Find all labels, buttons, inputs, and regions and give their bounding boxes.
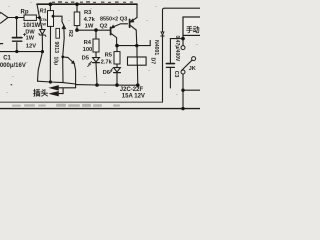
wire ground bus y51 xyxy=(0,51,43,53)
transistor Q2 emitter arrowhead xyxy=(112,26,115,28)
relay coil wire through xyxy=(136,57,138,65)
wire R2 wiper feed xyxy=(53,16,64,25)
relay coil J box xyxy=(128,57,147,65)
svg-text:J2C-22F: J2C-22F xyxy=(120,87,144,93)
node Ro-branch xyxy=(38,16,41,19)
wire bottom-left bus y82 xyxy=(38,81,76,84)
capacitor C1 bottom lead xyxy=(16,43,18,52)
svg-text:10/1W: 10/1W xyxy=(23,23,41,29)
wire rail corner down to Q3 emitter xyxy=(136,4,138,17)
transistor Q2 bar xyxy=(110,27,112,34)
C1 polarity plus xyxy=(23,33,25,35)
svg-text:9013: 9013 xyxy=(53,42,59,54)
wire D5 down to bus xyxy=(96,63,97,85)
plug arrow 2 head xyxy=(51,92,59,96)
svg-text:N4001: N4001 xyxy=(153,40,159,55)
plug arrow 2 tail xyxy=(58,93,64,95)
svg-text:R4: R4 xyxy=(84,40,92,46)
resistor R3 body xyxy=(74,12,80,26)
resistor R4 body xyxy=(93,39,99,52)
node R1-wiper xyxy=(52,15,55,18)
diode D7 on loop wire xyxy=(161,32,164,35)
diode D5 xyxy=(93,58,100,62)
svg-text:4.7k: 4.7k xyxy=(84,17,96,23)
svg-text:D5: D5 xyxy=(82,56,90,62)
node base bus R4 xyxy=(94,28,98,32)
svg-text:Q2: Q2 xyxy=(100,24,108,30)
resistor R5 top lead xyxy=(116,46,118,52)
node mic-C1 xyxy=(15,16,18,19)
relay contact side circle xyxy=(192,57,196,61)
svg-text:8550×2: 8550×2 xyxy=(100,17,118,23)
wire top rail xyxy=(37,3,137,5)
wire D6 down to bus xyxy=(116,73,118,85)
svg-text:1W: 1W xyxy=(26,36,35,42)
transistor Q3 emitter xyxy=(131,18,137,22)
zener DW bottom lead xyxy=(41,35,43,51)
node D6 bus xyxy=(115,83,119,87)
svg-text:D7: D7 xyxy=(149,58,155,65)
wire base line y30 xyxy=(77,29,110,31)
node C1-bus xyxy=(15,50,18,53)
node zener-bus xyxy=(41,50,44,53)
svg-text:R5: R5 xyxy=(105,53,113,59)
svg-text:15A 12V: 15A 12V xyxy=(122,93,145,99)
svg-text:Q3: Q3 xyxy=(120,17,129,23)
svg-text:0.47μ/400V: 0.47μ/400V xyxy=(174,36,180,63)
resistor R3 top lead xyxy=(76,4,78,12)
svg-text:JK: JK xyxy=(189,66,196,72)
resistor R1 body xyxy=(48,11,54,27)
capacitor C3 bottom lead xyxy=(169,68,171,88)
wire neutral rail y102 xyxy=(0,101,163,103)
mains loop box outline xyxy=(163,8,201,102)
resistor R5 body xyxy=(114,52,120,64)
left edge mark xyxy=(0,43,3,45)
svg-text:C3: C3 xyxy=(173,71,179,78)
svg-text:插头: 插头 xyxy=(33,88,49,98)
node coil bus xyxy=(136,83,140,87)
wire Ro to branch xyxy=(36,17,40,19)
plug arrow 1 tail xyxy=(58,87,76,89)
node bottom rail xyxy=(181,107,184,110)
wire switch box to contact xyxy=(182,35,184,45)
wire x75 drop to plug arrows xyxy=(74,64,75,88)
diode D6 ticks xyxy=(110,68,113,72)
wire left drop below bus xyxy=(38,52,43,82)
node load right xyxy=(181,89,184,92)
wire mic to Ro xyxy=(8,17,24,19)
capacitor C3 plates xyxy=(166,63,174,65)
svg-text:1W: 1W xyxy=(85,23,94,29)
mic / pickup transducer triangle xyxy=(1,12,9,23)
transistor Q3 bar xyxy=(129,19,131,27)
wire contact common down xyxy=(182,74,184,109)
resistor R3 bottom lead xyxy=(76,26,78,30)
svg-text:D6: D6 xyxy=(103,70,111,76)
faint smudge between bottom rails xyxy=(12,104,120,107)
svg-text:10μ: 10μ xyxy=(53,57,59,66)
transistor Q3 emitter arrowhead xyxy=(130,19,133,22)
resistor R1 bottom lead long vertical xyxy=(49,26,51,82)
svg-text:R2: R2 xyxy=(67,30,73,37)
svg-text:Rp: Rp xyxy=(21,9,29,15)
transistor Q1 emitter arrowhead xyxy=(72,61,74,63)
svg-text:R3: R3 xyxy=(84,10,92,16)
wire left branch from rail to zener xyxy=(37,4,42,29)
scan noise xyxy=(6,2,198,95)
relay coil bottom lead xyxy=(136,65,138,85)
capacitor C1 top lead xyxy=(16,18,18,37)
svg-text:100: 100 xyxy=(83,47,93,53)
node switch top xyxy=(181,37,185,41)
manual switch box xyxy=(183,17,201,35)
svg-text:R1: R1 xyxy=(40,9,47,15)
svg-text:C1: C1 xyxy=(3,56,11,62)
labels xyxy=(0,9,200,100)
capacitor C3 top lead xyxy=(169,39,171,64)
resistor R5 bottom lead xyxy=(116,64,118,67)
capacitor C1 plates xyxy=(13,37,22,39)
potentiometer R2 wiper stem xyxy=(63,29,64,57)
svg-text:12V: 12V xyxy=(26,43,36,49)
scan specks above rail xyxy=(52,1,133,3)
node base bus R3 xyxy=(75,28,79,32)
svg-text:2.7k: 2.7k xyxy=(101,60,113,66)
node Q2 collector xyxy=(115,44,119,48)
node Q3 collector xyxy=(135,44,138,47)
wire bottom bus y85 to relay xyxy=(76,84,138,87)
plug arrow 1 head xyxy=(51,86,59,90)
transistor Q3 collector xyxy=(131,26,137,46)
transistor Q2 emitter xyxy=(112,24,128,28)
diode D5 arrows xyxy=(88,61,92,66)
transistor Q1 emitter diagonal xyxy=(68,57,74,63)
wire load out right y90 xyxy=(183,89,200,91)
node D5 bus xyxy=(95,83,99,87)
resistor R4 top lead xyxy=(95,30,97,39)
diode D7 stub xyxy=(149,40,151,45)
transistor Q1 collector lead xyxy=(63,56,68,59)
svg-text:手动: 手动 xyxy=(186,25,200,34)
zener diode DW xyxy=(40,30,45,35)
wire collector bus y45 xyxy=(117,45,150,47)
diode D6 xyxy=(114,68,121,72)
relay contact top circle xyxy=(181,46,185,50)
node Q1 collector xyxy=(61,56,64,59)
svg-text:1W: 1W xyxy=(40,22,46,27)
svg-text:1000μ/16V: 1000μ/16V xyxy=(0,63,26,69)
relay contact bottom circle xyxy=(181,70,185,74)
relay contact arm xyxy=(181,60,192,70)
wire contact stub from junction left xyxy=(170,38,183,40)
junction dots xyxy=(15,2,185,110)
node rail-R3 xyxy=(75,2,79,6)
node rail-R1 xyxy=(49,2,53,6)
resistor R4 bottom lead xyxy=(95,52,97,57)
wire Q1 down to bus xyxy=(62,57,64,82)
plug arrow 2 riser xyxy=(62,88,64,94)
relay coil top lead xyxy=(136,46,138,57)
resistor R1 top lead xyxy=(49,4,51,10)
potentiometer R2 body xyxy=(56,28,60,38)
node bus left xyxy=(49,80,52,83)
potentiometer R2 wiper arrow xyxy=(62,25,65,28)
wire bottom rail y108 xyxy=(0,108,200,110)
resistor Ro body xyxy=(24,15,36,20)
transistor Q2 collector xyxy=(111,34,116,46)
